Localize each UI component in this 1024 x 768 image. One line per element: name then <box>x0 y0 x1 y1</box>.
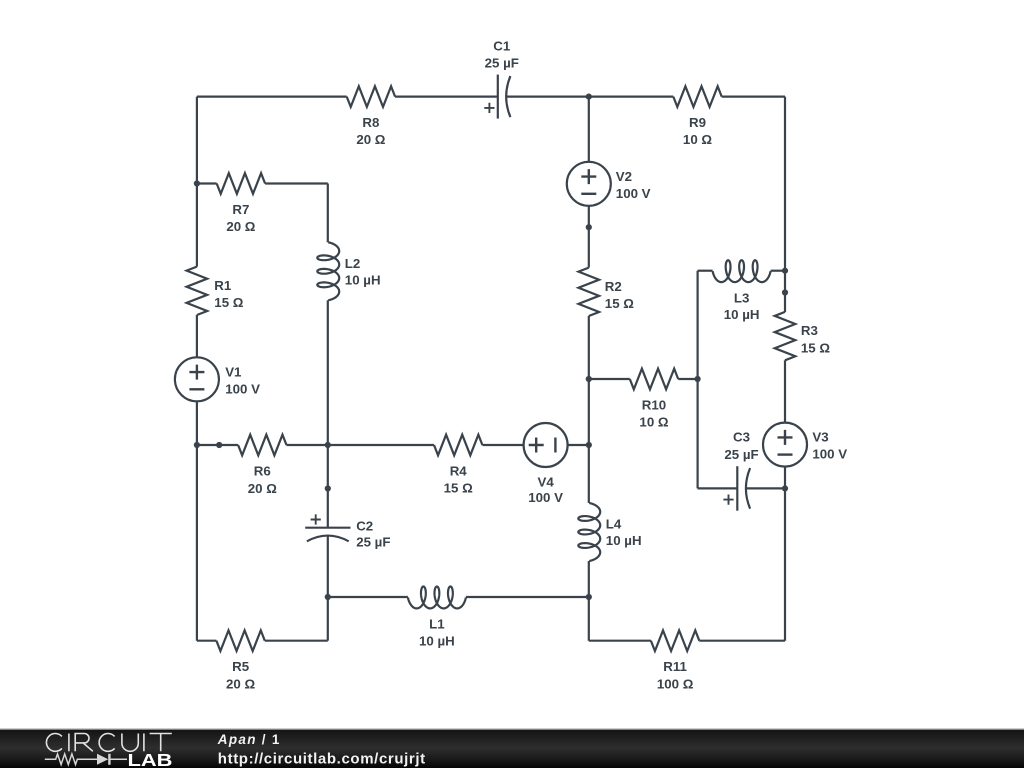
resistor R5 <box>216 630 264 651</box>
svg-text:10 µH: 10 µH <box>345 272 381 287</box>
wire R2 down to L4 <box>588 316 590 503</box>
resistor R11 <box>651 630 699 651</box>
svg-text:15 Ω: 15 Ω <box>214 295 243 310</box>
wire R11 to bottom right corner <box>699 640 785 642</box>
top wire left segment <box>197 95 347 97</box>
svg-text:V4: V4 <box>537 475 554 490</box>
svg-text:100 V: 100 V <box>812 447 847 462</box>
svg-text:15 Ω: 15 Ω <box>801 340 830 355</box>
svg-text:10 µH: 10 µH <box>419 633 455 648</box>
svg-text:V1: V1 <box>225 364 242 379</box>
resistor R1 <box>187 267 208 315</box>
resistor R6 <box>238 435 286 456</box>
wire L3 left lead <box>698 270 713 272</box>
svg-text:20 Ω: 20 Ω <box>226 219 255 234</box>
wire R1 to V1 <box>196 315 198 357</box>
svg-text:10 µH: 10 µH <box>724 307 760 322</box>
wire down to R5 wire <box>327 597 329 641</box>
wire V4 to middle vertical <box>568 444 589 446</box>
logo CIRCUIT letters <box>46 733 171 751</box>
svg-text:L3: L3 <box>734 290 750 305</box>
svg-text:15 Ω: 15 Ω <box>444 481 473 496</box>
node dot V4 junction <box>586 442 592 448</box>
wire L4 down to corner <box>588 561 590 641</box>
svg-text:R1: R1 <box>214 278 232 293</box>
wire R8 to C1 <box>395 95 498 97</box>
svg-text:C3: C3 <box>733 430 750 445</box>
wire V3 down to bottom right corner <box>784 467 786 641</box>
right branch vertical <box>696 271 698 489</box>
logo diode <box>97 754 108 765</box>
svg-text:R11: R11 <box>663 659 687 674</box>
left vertical wire upper <box>196 97 198 267</box>
wire C3 left lead <box>698 487 738 489</box>
svg-text:100 V: 100 V <box>616 186 651 201</box>
svg-text:L1: L1 <box>429 617 445 632</box>
wire V2 to R2 <box>588 206 590 268</box>
svg-text:R3: R3 <box>801 323 818 338</box>
svg-text:15 Ω: 15 Ω <box>605 296 634 311</box>
voltage source V2 <box>567 162 611 206</box>
wire C2 to L1 node <box>327 536 329 597</box>
wire L2 down to C2 <box>327 300 329 527</box>
node dot L1 junction <box>325 594 331 600</box>
wire corner down to L2 <box>327 184 329 243</box>
node dot top middle <box>586 94 592 100</box>
wire R10 left lead <box>589 378 630 380</box>
node dot L3 junction <box>782 268 788 274</box>
capacitor C3 <box>736 466 738 511</box>
wire bottom left to R5 <box>197 640 217 642</box>
inductor L2 <box>317 242 339 300</box>
resistor R3 <box>775 312 796 360</box>
node dot L1 right junction <box>586 594 592 600</box>
svg-text:Apan / 1: Apan / 1 <box>217 732 281 747</box>
node dot R7 junction <box>194 180 200 186</box>
node dot R6 stub <box>216 442 222 448</box>
svg-text:C1: C1 <box>493 38 511 53</box>
svg-text:20 Ω: 20 Ω <box>226 676 255 691</box>
node dot C2 top junction <box>325 442 331 448</box>
svg-text:L2: L2 <box>345 256 361 271</box>
svg-text:http://circuitlab.com/crujrjt: http://circuitlab.com/crujrjt <box>218 750 426 767</box>
svg-text:V3: V3 <box>812 430 828 445</box>
svg-text:R7: R7 <box>232 202 249 217</box>
svg-text:LAB: LAB <box>128 750 173 768</box>
wire R3 to V3 <box>784 360 786 422</box>
logo resistor squiggle <box>45 754 97 765</box>
resistor R8 <box>347 86 395 107</box>
wire R4 left lead <box>328 444 434 446</box>
inductor L4 <box>578 503 600 561</box>
wire R7 left lead <box>197 182 217 184</box>
svg-text:10 Ω: 10 Ω <box>639 415 668 430</box>
svg-text:R5: R5 <box>232 659 250 674</box>
wire R5 to corner <box>265 640 328 642</box>
middle vertical top segment <box>588 97 590 162</box>
voltage source V1 <box>175 357 219 401</box>
svg-text:20 Ω: 20 Ω <box>248 481 277 496</box>
wire L1 left lead <box>328 596 408 598</box>
svg-text:25 µF: 25 µF <box>485 55 519 70</box>
resistor R4 <box>434 435 482 456</box>
node dot on C2 wire <box>325 485 331 491</box>
capacitor C1 <box>497 75 499 119</box>
svg-text:10 Ω: 10 Ω <box>683 132 712 147</box>
node dot V1/R6 junction <box>194 442 200 448</box>
inductor L1 <box>408 587 466 609</box>
resistor R10 <box>630 369 678 390</box>
resistor R9 <box>673 86 721 107</box>
svg-text:R2: R2 <box>605 279 622 294</box>
wire R4 to V4 <box>482 444 523 446</box>
wire V1 down to bottom left corner <box>196 401 198 640</box>
svg-text:R8: R8 <box>362 115 379 130</box>
wire R9 to top right corner <box>722 95 785 97</box>
svg-text:R6: R6 <box>254 464 271 479</box>
voltage source V4 <box>524 423 568 467</box>
wire L3 to right vertical <box>771 270 785 272</box>
svg-text:R9: R9 <box>689 115 706 130</box>
right vertical upper <box>784 97 786 312</box>
bottom bar background <box>0 728 1024 768</box>
svg-text:100 V: 100 V <box>225 381 260 396</box>
node dot below L3 <box>782 289 788 295</box>
svg-text:25 µF: 25 µF <box>724 447 758 462</box>
wire L1 to middle vertical <box>466 596 589 598</box>
svg-text:R10: R10 <box>642 397 666 412</box>
svg-text:10 µH: 10 µH <box>606 533 642 548</box>
node dot R10 junction <box>586 376 592 382</box>
wire R10 to right branch <box>678 378 697 380</box>
svg-text:L4: L4 <box>606 517 622 532</box>
node dot below V2 <box>586 224 592 230</box>
wire R6 left lead <box>197 444 238 446</box>
wire C1 to R9 <box>506 95 673 97</box>
svg-text:100 V: 100 V <box>528 490 563 505</box>
inductor L3 <box>713 260 771 282</box>
wire C3 to V3 bottom node <box>746 487 785 489</box>
resistor R2 <box>579 268 600 316</box>
node dot C3 junction <box>782 485 788 491</box>
svg-text:C2: C2 <box>356 519 373 534</box>
svg-text:100 Ω: 100 Ω <box>657 676 694 691</box>
capacitor C2 <box>305 527 350 529</box>
resistor R7 <box>217 173 265 194</box>
wire bottom to R11 <box>589 640 651 642</box>
node dot R10 right junction <box>695 376 701 382</box>
svg-text:20 Ω: 20 Ω <box>356 132 385 147</box>
voltage source V3 <box>763 423 807 467</box>
wire R7 to L2 corner <box>265 182 328 184</box>
wire R6 to C2 branch <box>287 444 328 446</box>
svg-text:V2: V2 <box>616 169 632 184</box>
svg-text:25 µF: 25 µF <box>356 534 390 549</box>
svg-text:R4: R4 <box>450 463 468 478</box>
